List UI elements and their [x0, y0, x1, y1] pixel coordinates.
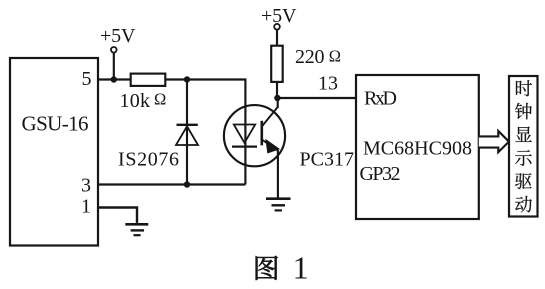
- display driver box: [509, 76, 538, 217]
- svg-text:220: 220: [295, 46, 325, 68]
- display box char 驱: [515, 173, 532, 189]
- junction node C diode bottom: [184, 181, 190, 187]
- svg-text:Ω: Ω: [329, 47, 341, 66]
- +5V supply terminal (right): [274, 24, 280, 30]
- display box char 钟: [515, 103, 532, 120]
- LED D2 triangle inside optocoupler: [234, 125, 255, 143]
- phototransistor Q1 emitter arrowhead: [266, 140, 279, 153]
- +5V supply terminal (left): [111, 47, 117, 53]
- svg-text:1: 1: [293, 250, 309, 286]
- junction node B diode top: [184, 76, 190, 82]
- svg-text:3: 3: [81, 175, 91, 197]
- svg-text:1: 1: [81, 196, 91, 218]
- diode D1 cathode bar: [177, 124, 198, 126]
- MCU U3 box: [356, 75, 479, 219]
- wire top rail: pin 5 to LED anode corner: [98, 80, 245, 108]
- svg-text:13: 13: [318, 73, 338, 95]
- wire pin 1 to ground: [98, 208, 137, 223]
- wire R2 to collector node: [276, 82, 278, 98]
- wire emitter down to ground: [277, 150, 279, 199]
- phototransistor Q1 base bar: [260, 121, 263, 146]
- caption char 图: [256, 256, 278, 280]
- svg-text:IS2076: IS2076: [118, 149, 179, 171]
- svg-text:+5V: +5V: [261, 5, 297, 27]
- wire collector node to RxD pin: [277, 97, 356, 99]
- phototransistor Q1 emitter stroke: [262, 140, 278, 151]
- svg-text:5: 5: [82, 68, 92, 90]
- IC U1 GSU-16 box: [10, 58, 98, 246]
- svg-text:+5V: +5V: [100, 25, 136, 47]
- wire collector vertical: [277, 98, 279, 108]
- block arrow MCU to display driver: [479, 131, 509, 152]
- wire LED line through optocoupler down to bottom rail: [244, 107, 246, 185]
- junction node D collector: [274, 95, 280, 101]
- svg-text:Ω: Ω: [154, 90, 166, 109]
- display box char 时: [516, 80, 532, 96]
- phototransistor Q1 collector stroke: [262, 107, 278, 127]
- svg-text:RxD: RxD: [364, 87, 397, 109]
- diode D1 triangle: [176, 126, 198, 145]
- svg-text:10k: 10k: [120, 90, 151, 112]
- svg-text:GSU-16: GSU-16: [22, 112, 89, 136]
- display box char 动: [515, 196, 532, 213]
- optocoupler U2 PC317 body circle: [224, 105, 285, 166]
- LED D2 cathode bar: [232, 146, 257, 148]
- wire bottom rail: pin 3 to LED cathode: [98, 183, 245, 185]
- display box char 显: [515, 127, 531, 142]
- svg-text:PC317: PC317: [300, 149, 355, 171]
- display box char 示: [515, 150, 532, 166]
- wire +5V to R2: [276, 30, 278, 46]
- resistor R2 220 body: [271, 46, 283, 82]
- svg-text:GP32: GP32: [360, 163, 401, 185]
- svg-text:MC68HC908: MC68HC908: [363, 137, 472, 159]
- resistor R1 10k body: [131, 74, 166, 86]
- ground symbol (right): [266, 199, 291, 211]
- ground symbol (left): [125, 224, 148, 235]
- wire diode branch vertical: [186, 80, 188, 185]
- junction node A: [111, 76, 117, 82]
- wire +5V drop (left): [113, 53, 115, 80]
